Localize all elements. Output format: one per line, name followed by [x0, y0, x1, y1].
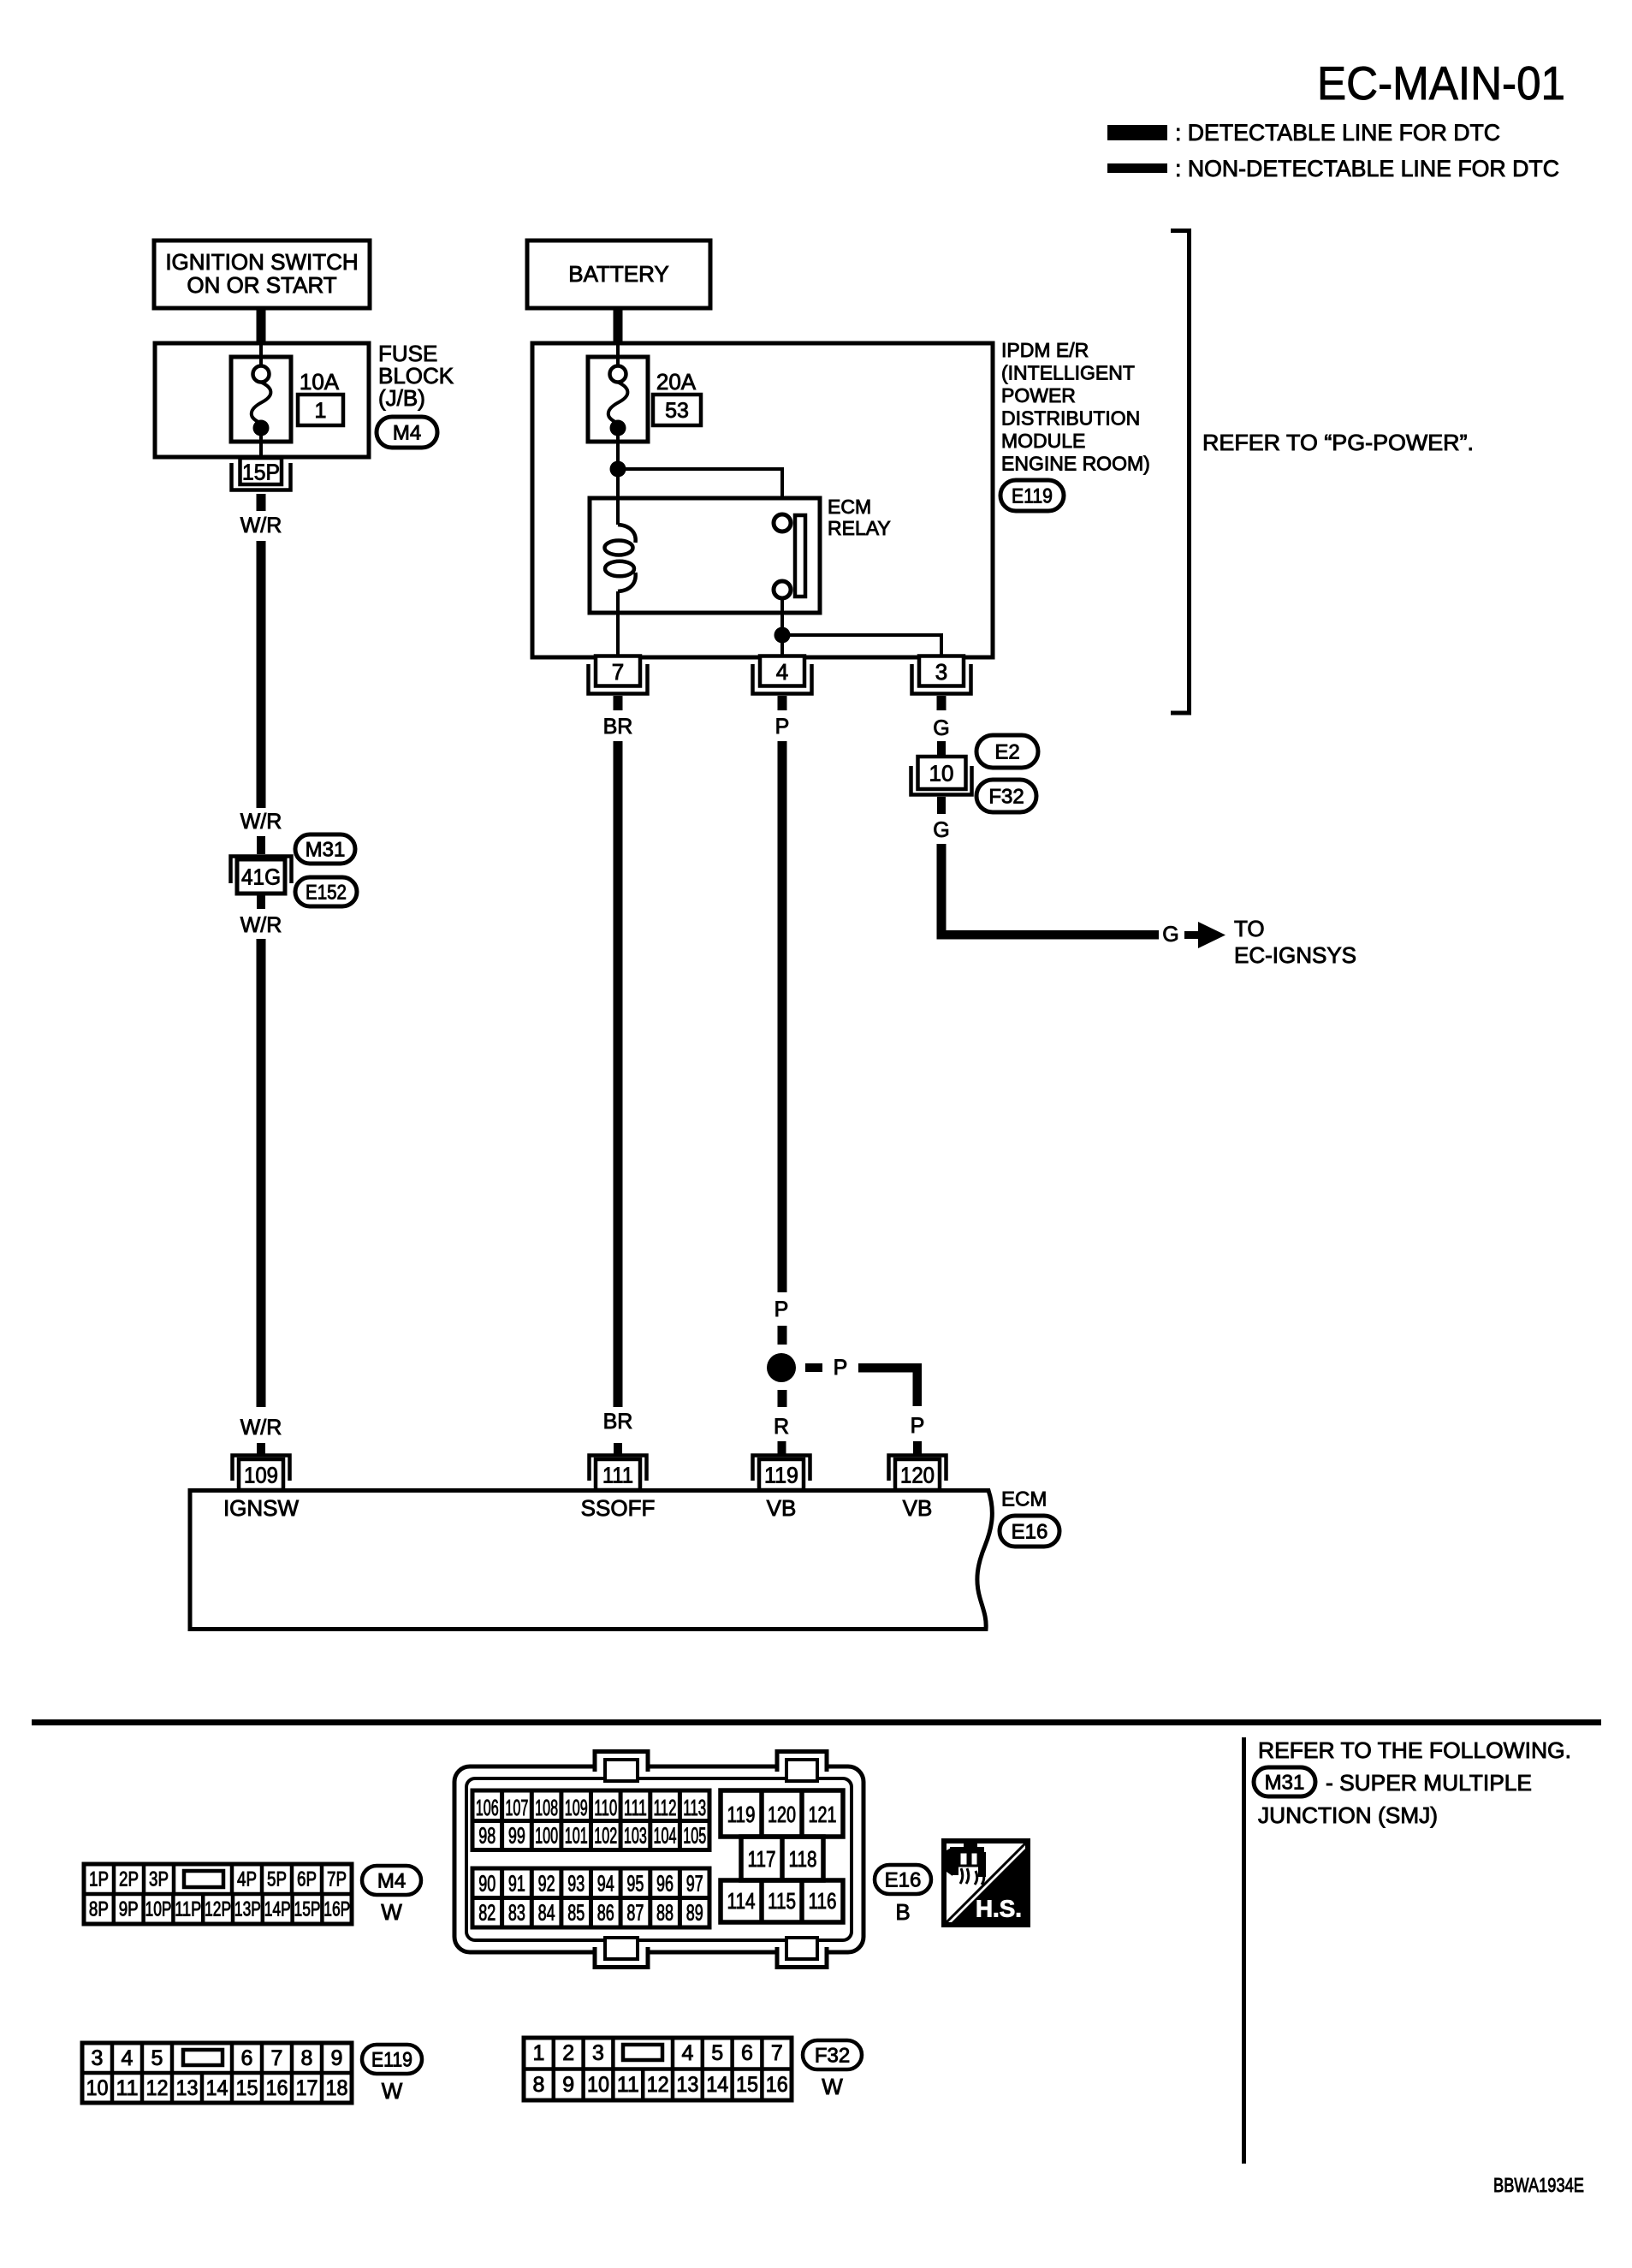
- svg-text:3: 3: [592, 2041, 604, 2065]
- shell bottom tab A: [595, 1947, 648, 1968]
- svg-text:120: 120: [768, 1802, 796, 1827]
- svg-text:92: 92: [538, 1871, 555, 1897]
- connector ref M31 oval: [1254, 1767, 1315, 1796]
- svg-text:REFER TO THE FOLLOWING.: REFER TO THE FOLLOWING.: [1258, 1737, 1571, 1763]
- svg-text:M31: M31: [1265, 1772, 1305, 1795]
- wire stub below 7: [614, 696, 623, 710]
- svg-text:115: 115: [768, 1888, 796, 1914]
- connector 41G (SMJ): [231, 857, 292, 884]
- svg-text:2: 2: [562, 2041, 574, 2065]
- right column divider: [1242, 1737, 1246, 2164]
- svg-text:10A: 10A: [300, 369, 340, 395]
- svg-text:110: 110: [594, 1795, 617, 1820]
- svg-text:16: 16: [266, 2076, 288, 2100]
- svg-text:9: 9: [562, 2073, 574, 2097]
- svg-text:93: 93: [567, 1871, 585, 1897]
- shell top tab A: [595, 1752, 648, 1772]
- svg-text:4: 4: [681, 2041, 693, 2065]
- svg-text:106: 106: [476, 1795, 499, 1820]
- svg-text:2P: 2P: [119, 1868, 139, 1891]
- svg-text:101: 101: [565, 1823, 588, 1849]
- svg-text:12: 12: [146, 2076, 169, 2100]
- svg-text:7: 7: [612, 659, 624, 685]
- ECM box with torn edge: [190, 1491, 992, 1630]
- svg-text:14: 14: [206, 2076, 228, 2100]
- svg-text:16: 16: [766, 2073, 788, 2097]
- connector 15P at fuse block bottom: [232, 463, 291, 490]
- svg-text:7: 7: [271, 2046, 283, 2070]
- svg-text:- SUPER MULTIPLE: - SUPER MULTIPLE: [1326, 1770, 1532, 1796]
- svg-text:9P: 9P: [119, 1898, 139, 1921]
- svg-text:104: 104: [654, 1823, 677, 1849]
- svg-text:E16: E16: [1012, 1521, 1048, 1544]
- svg-text:F32: F32: [815, 2045, 850, 2068]
- svg-text:BBWA1934E: BBWA1934E: [1493, 2174, 1584, 2196]
- svg-text:11: 11: [116, 2076, 139, 2100]
- ECM relay box: [590, 498, 820, 613]
- svg-text:W/R: W/R: [240, 913, 282, 937]
- svg-text:109: 109: [244, 1463, 278, 1488]
- connector ref E16 oval (bottom): [875, 1865, 931, 1894]
- svg-text:EC-IGNSYS: EC-IGNSYS: [1234, 942, 1356, 968]
- svg-text:98: 98: [478, 1823, 496, 1849]
- svg-text:M31: M31: [306, 839, 346, 862]
- wire stub below 4: [778, 696, 787, 710]
- svg-text:B: B: [895, 1899, 910, 1925]
- svg-text:119: 119: [764, 1463, 798, 1488]
- svg-text:18: 18: [326, 2076, 348, 2100]
- svg-text:99: 99: [508, 1823, 525, 1849]
- svg-text:11P: 11P: [175, 1898, 201, 1921]
- svg-text:W/R: W/R: [240, 1416, 282, 1440]
- junction dot below fuse 53: [610, 461, 626, 478]
- svg-text:7P: 7P: [327, 1868, 347, 1891]
- connector F32 pin table: [524, 2038, 792, 2100]
- svg-text:IGNITION SWITCH: IGNITION SWITCH: [165, 249, 358, 275]
- svg-text:100: 100: [535, 1823, 558, 1849]
- svg-text:14: 14: [706, 2073, 728, 2097]
- svg-text:10P: 10P: [145, 1898, 172, 1921]
- svg-text:116: 116: [809, 1888, 837, 1914]
- svg-text:M4: M4: [393, 422, 421, 445]
- connector 7 at IPDM bottom: [589, 664, 648, 694]
- svg-text:SSOFF: SSOFF: [581, 1495, 656, 1521]
- pin grid right rows: [721, 1790, 843, 1922]
- svg-text:111: 111: [624, 1795, 647, 1820]
- svg-text:109: 109: [565, 1795, 588, 1820]
- svg-text:87: 87: [626, 1900, 644, 1926]
- svg-text:3: 3: [935, 659, 947, 685]
- svg-text:103: 103: [624, 1823, 647, 1849]
- svg-text:E119: E119: [371, 2049, 412, 2072]
- connector E119 pin table: [82, 2043, 352, 2103]
- svg-text:91: 91: [508, 1871, 525, 1897]
- svg-text:P: P: [834, 1356, 848, 1380]
- fuse block (J/B) box: [155, 343, 369, 457]
- svg-text:W/R: W/R: [240, 810, 282, 834]
- svg-text:108: 108: [535, 1795, 558, 1820]
- svg-text:6P: 6P: [297, 1868, 317, 1891]
- wire stub above 111: [614, 1443, 622, 1456]
- svg-text:102: 102: [594, 1823, 617, 1849]
- svg-text:118: 118: [789, 1846, 817, 1872]
- H.S. mark box: [944, 1841, 1028, 1925]
- svg-text:11: 11: [617, 2073, 639, 2097]
- svg-text:117: 117: [748, 1846, 776, 1872]
- wire stub above 41G: [257, 836, 265, 854]
- svg-text:6: 6: [741, 2041, 753, 2065]
- shell top tab B: [777, 1752, 827, 1772]
- svg-text:15: 15: [736, 2073, 758, 2097]
- wire stub above 109: [257, 1443, 265, 1456]
- svg-text:ECM: ECM: [828, 496, 871, 518]
- connector ref E152 oval: [295, 877, 357, 906]
- ignition switch box: [154, 240, 370, 308]
- svg-text:VB: VB: [903, 1495, 933, 1521]
- svg-text:POWER: POWER: [1001, 384, 1076, 407]
- svg-text:12: 12: [647, 2073, 669, 2097]
- wire W/R long (lower): [257, 939, 266, 1407]
- svg-text:4: 4: [122, 2046, 134, 2070]
- fuse F1 number box 1: [298, 395, 343, 425]
- svg-text:BATTERY: BATTERY: [568, 261, 669, 287]
- svg-text:111: 111: [602, 1463, 633, 1488]
- svg-text:5P: 5P: [267, 1868, 287, 1891]
- svg-text:15P: 15P: [242, 460, 280, 485]
- svg-text:20A: 20A: [656, 369, 697, 395]
- svg-text:6: 6: [241, 2046, 253, 2070]
- connector 119 at ECM top: [753, 1456, 810, 1481]
- connector ref M4 oval (bottom): [362, 1866, 421, 1895]
- svg-text:BR: BR: [603, 1410, 633, 1434]
- svg-text:15P: 15P: [294, 1898, 321, 1921]
- svg-text:VB: VB: [767, 1495, 797, 1521]
- wire junction down to coil: [616, 469, 620, 525]
- svg-text:119: 119: [727, 1802, 756, 1827]
- battery box: [527, 240, 710, 308]
- svg-text:E2: E2: [994, 741, 1019, 764]
- svg-text:MODULE: MODULE: [1001, 430, 1085, 452]
- wire junction to relay contact: [618, 469, 782, 514]
- wire stub below 15P: [257, 494, 266, 511]
- svg-text:(INTELLIGENT: (INTELLIGENT: [1001, 362, 1135, 384]
- svg-text:95: 95: [626, 1871, 644, 1897]
- svg-text:E152: E152: [306, 882, 347, 905]
- svg-text:JUNCTION (SMJ): JUNCTION (SMJ): [1258, 1802, 1438, 1828]
- legend non-detectable line swatch: [1107, 163, 1167, 173]
- svg-text:ENGINE ROOM): ENGINE ROOM): [1001, 453, 1150, 475]
- separator line: [32, 1719, 1601, 1725]
- svg-text:10: 10: [587, 2073, 609, 2097]
- wire G to EC-IGNSYS: [941, 844, 1159, 939]
- svg-text:4: 4: [776, 659, 788, 685]
- svg-text:RELAY: RELAY: [828, 517, 891, 539]
- svg-text:17: 17: [296, 2076, 318, 2100]
- fuse number box 53: [653, 395, 701, 425]
- svg-text:120: 120: [900, 1463, 935, 1488]
- svg-text:3: 3: [92, 2046, 104, 2070]
- wire W/R long (upper): [257, 541, 266, 808]
- svg-text:7: 7: [771, 2041, 783, 2065]
- svg-text:(J/B): (J/B): [378, 385, 425, 411]
- svg-text:REFER TO “PG-POWER”.: REFER TO “PG-POWER”.: [1202, 430, 1474, 455]
- svg-text:BR: BR: [603, 715, 633, 739]
- svg-text:10: 10: [86, 2076, 109, 2100]
- svg-text:F32: F32: [988, 786, 1024, 809]
- svg-text:1P: 1P: [89, 1868, 109, 1891]
- svg-text:E16: E16: [885, 1869, 922, 1892]
- svg-text:8: 8: [301, 2046, 313, 2070]
- svg-text:P: P: [911, 1414, 925, 1438]
- svg-text:: DETECTABLE LINE FOR DTC: : DETECTABLE LINE FOR DTC: [1175, 120, 1500, 145]
- wire BR long: [614, 741, 623, 1407]
- svg-text:5: 5: [711, 2041, 723, 2065]
- svg-text:107: 107: [505, 1795, 528, 1820]
- svg-text:13P: 13P: [234, 1898, 261, 1921]
- shell bottom tab B: [777, 1947, 827, 1968]
- connector 111 at ECM top: [590, 1456, 647, 1481]
- fuse F1 box: [231, 357, 291, 442]
- svg-text:90: 90: [478, 1871, 496, 1897]
- fuse 53 symbol: [608, 343, 628, 461]
- connector ref E119 oval (bottom): [362, 2045, 422, 2074]
- svg-text:G: G: [1162, 923, 1178, 947]
- connector M4 pin table: [84, 1864, 352, 1924]
- connector ref F32 oval: [976, 780, 1036, 812]
- wire stub above 120: [913, 1441, 922, 1455]
- svg-text:DISTRIBUTION: DISTRIBUTION: [1001, 407, 1140, 430]
- H.S. connector icon: [947, 1842, 986, 1885]
- arrow to EC-IGNSYS: [1184, 931, 1198, 939]
- svg-text:W/R: W/R: [240, 514, 282, 537]
- fuse 53 box: [588, 357, 648, 442]
- connector 3 at IPDM bottom: [912, 664, 971, 694]
- wire stub above connector 10: [937, 741, 946, 757]
- svg-text:E119: E119: [1012, 485, 1053, 508]
- svg-text:14P: 14P: [264, 1898, 291, 1921]
- wire branch to connector 3: [782, 635, 941, 657]
- svg-text:W: W: [382, 2078, 403, 2104]
- wire coil to connector 7: [616, 613, 620, 657]
- relay armature bar: [795, 515, 805, 597]
- svg-text:IGNSW: IGNSW: [223, 1495, 300, 1521]
- svg-text:85: 85: [567, 1900, 585, 1926]
- svg-text:112: 112: [654, 1795, 677, 1820]
- legend detectable line swatch: [1107, 125, 1167, 140]
- svg-text:W: W: [822, 2074, 843, 2099]
- svg-text:3P: 3P: [149, 1868, 169, 1891]
- svg-text:TO: TO: [1234, 916, 1265, 941]
- svg-text:M4: M4: [377, 1870, 406, 1893]
- svg-text:IPDM E/R: IPDM E/R: [1001, 339, 1089, 361]
- connector 10 (E2/F32): [918, 757, 966, 789]
- svg-text:: NON-DETECTABLE LINE FOR DTC: : NON-DETECTABLE LINE FOR DTC: [1175, 156, 1559, 181]
- svg-text:13: 13: [176, 2076, 199, 2100]
- dash P: [778, 1326, 787, 1345]
- junction splice dot: [767, 1353, 796, 1382]
- wire P branch to 120: [858, 1363, 922, 1406]
- connector 4 at IPDM bottom: [753, 664, 812, 694]
- wire stub below connector 10: [937, 797, 946, 814]
- svg-text:96: 96: [656, 1871, 674, 1897]
- wire battery to IPDM (detectable): [614, 308, 623, 343]
- pin grid upper-left: [472, 1790, 709, 1850]
- svg-text:P: P: [775, 715, 790, 739]
- connector 120 at ECM top: [889, 1456, 947, 1481]
- relay contact circles: [774, 514, 791, 531]
- connector ref M4 oval: [377, 417, 437, 448]
- IPDM E/R box: [532, 343, 993, 657]
- svg-text:114: 114: [727, 1888, 756, 1914]
- wire stub above 119: [778, 1441, 786, 1455]
- ECM big connector E16 shell: [454, 1766, 863, 1952]
- svg-text:83: 83: [508, 1900, 525, 1926]
- svg-text:W: W: [381, 1899, 402, 1925]
- svg-text:8P: 8P: [89, 1898, 109, 1921]
- wire ignition to fuse block (W/R detectable): [257, 308, 266, 343]
- svg-text:105: 105: [683, 1823, 706, 1849]
- dash R below dot: [778, 1390, 787, 1407]
- connector ref E2 oval: [976, 735, 1038, 768]
- connector ref E16 oval: [1000, 1516, 1059, 1547]
- relay coil: [605, 498, 636, 613]
- connector ref E119 oval: [1000, 480, 1064, 511]
- svg-text:53: 53: [665, 399, 689, 423]
- svg-text:16P: 16P: [323, 1898, 350, 1921]
- svg-text:4P: 4P: [237, 1868, 257, 1891]
- svg-text:88: 88: [656, 1900, 674, 1926]
- svg-text:86: 86: [597, 1900, 614, 1926]
- svg-text:8: 8: [532, 2073, 544, 2097]
- svg-text:ON OR START: ON OR START: [187, 272, 336, 298]
- fuse F1 symbol: [252, 343, 271, 457]
- svg-text:5: 5: [151, 2046, 163, 2070]
- svg-text:G: G: [933, 818, 949, 842]
- svg-text:1: 1: [532, 2041, 544, 2065]
- wire P long: [778, 741, 787, 1292]
- svg-text:10: 10: [929, 761, 954, 787]
- svg-text:G: G: [933, 716, 949, 740]
- svg-text:84: 84: [538, 1900, 555, 1926]
- connector 109 at ECM top: [233, 1456, 290, 1481]
- svg-text:EC-MAIN-01: EC-MAIN-01: [1317, 56, 1565, 110]
- svg-text:H.S.: H.S.: [976, 1896, 1022, 1922]
- svg-text:41G: 41G: [241, 864, 281, 890]
- dash P right of dot: [805, 1363, 822, 1372]
- svg-text:89: 89: [686, 1900, 703, 1926]
- wire stub below 41G: [257, 894, 265, 909]
- svg-text:1: 1: [315, 399, 327, 423]
- svg-text:94: 94: [597, 1871, 614, 1897]
- connector ref F32 oval (bottom): [803, 2040, 862, 2069]
- svg-text:97: 97: [686, 1871, 703, 1897]
- svg-text:12P: 12P: [205, 1898, 231, 1921]
- svg-text:R: R: [774, 1415, 789, 1439]
- svg-text:13: 13: [676, 2073, 698, 2097]
- svg-text:113: 113: [683, 1795, 706, 1820]
- svg-text:P: P: [774, 1297, 789, 1321]
- svg-text:82: 82: [478, 1900, 496, 1926]
- wire stub below 3: [937, 696, 947, 710]
- svg-text:ECM: ECM: [1001, 1488, 1047, 1511]
- junction dot below relay: [774, 627, 791, 644]
- svg-text:15: 15: [236, 2076, 258, 2100]
- svg-text:121: 121: [809, 1802, 837, 1827]
- connector ref M31 oval: [295, 834, 355, 864]
- refer bracket: [1171, 231, 1190, 714]
- wire contact to junction to connector 4: [780, 598, 784, 657]
- pin grid lower-left: [472, 1868, 709, 1927]
- svg-text:9: 9: [331, 2046, 343, 2070]
